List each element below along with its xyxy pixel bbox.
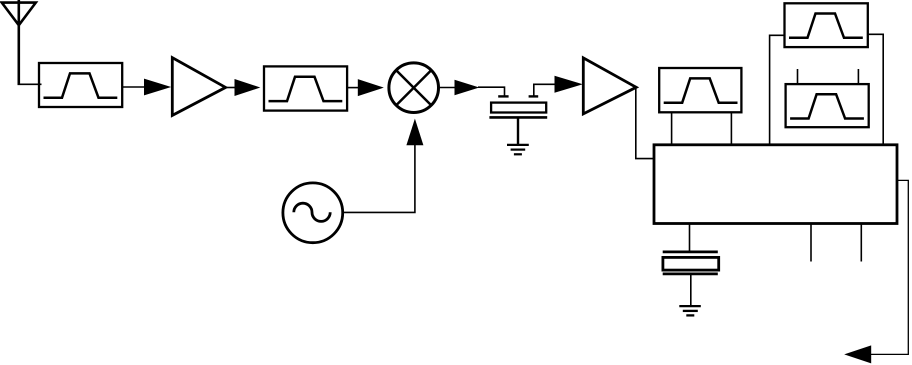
IC bottom pin stub 1 xyxy=(810,224,812,262)
band-pass filter FL5 (top feedback loop) xyxy=(785,3,868,47)
wire A1 to FL2 with arrowhead xyxy=(226,79,261,96)
local oscillator G1 xyxy=(283,183,343,243)
wire LO to mixer with up arrowhead xyxy=(343,119,424,213)
wire mixer to ceramic filter with arrowhead xyxy=(439,80,505,96)
ceramic filter CF1 xyxy=(489,96,547,117)
IC U2 (demodulator block) xyxy=(654,145,897,224)
wire CF1 to A2 with arrowhead xyxy=(534,76,583,96)
IC bottom pin stub 2 xyxy=(860,224,862,262)
wire antenna to FL1 xyxy=(18,83,42,85)
wires FL3 to IC (two legs) xyxy=(672,112,732,145)
wire loop right: FL5 to IC xyxy=(868,34,883,145)
wire CF1 to ground xyxy=(517,118,519,146)
antenna xyxy=(2,0,36,84)
band-pass filter FL1 xyxy=(39,63,122,107)
crystal X1 xyxy=(663,252,719,274)
amplifier A1 xyxy=(172,58,225,116)
mixer U1 xyxy=(389,63,439,113)
wire crystal to ground xyxy=(690,274,692,306)
band-pass filter FL4 (with terminals) xyxy=(786,69,869,127)
amplifier A2 xyxy=(583,58,636,114)
wire loop left: FL5 to IC xyxy=(770,35,785,145)
wire FL2 to mixer with arrowhead xyxy=(347,79,384,96)
band-pass filter FL3 xyxy=(659,68,741,112)
output wire with left arrowhead xyxy=(844,180,908,363)
wire FL1 to A1 with arrowhead xyxy=(122,79,171,96)
wire A2 to IC xyxy=(636,87,655,158)
ground under CF1 xyxy=(507,145,529,154)
ground under crystal xyxy=(679,306,701,315)
wire IC to crystal xyxy=(689,224,691,251)
band-pass filter FL2 xyxy=(264,66,347,110)
